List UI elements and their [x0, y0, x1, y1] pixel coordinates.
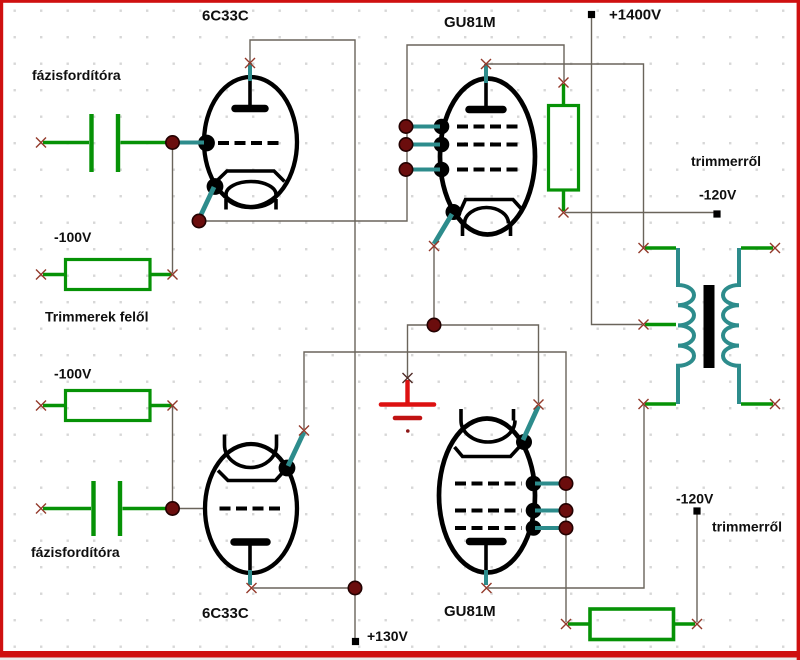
node: V4 grid 1: [559, 477, 572, 490]
anode bottom lead (teal): [484, 570, 488, 585]
terminal x: R3 top: [559, 78, 569, 88]
svg-text:6C33C: 6C33C: [202, 8, 249, 25]
terminal x: T1 primary top: [639, 243, 649, 253]
anode lead: [484, 80, 488, 107]
wire: V3 anode to node at x=355: [253, 587, 355, 589]
grid pin dots: [526, 476, 542, 492]
svg-text:trimmerről: trimmerről: [691, 153, 761, 169]
envelope: [440, 79, 535, 235]
wire: node to V4 cathode: [434, 325, 539, 403]
node: V1 cathode: [192, 214, 205, 227]
terminal x: ground connection: [403, 373, 413, 383]
envelope: [205, 444, 297, 573]
grid dashed x3: [455, 484, 522, 529]
node: V4 grid 2: [559, 504, 572, 517]
primary bottom lead: [645, 402, 676, 405]
terminal x: V3 cathode: [299, 426, 309, 436]
anode lead: [248, 78, 252, 106]
core: [704, 285, 715, 368]
terminal x: R3 bottom: [559, 208, 569, 218]
grid dashed: [218, 141, 284, 145]
heater legs: [463, 224, 511, 237]
heater arc: [225, 445, 277, 468]
anode lead: [484, 545, 488, 572]
terminal x: V2 top cap: [481, 59, 491, 69]
wire: V2 cathode down to node: [433, 247, 435, 325]
wire: V4 anode to transformer primary bottom: [488, 405, 644, 588]
terminal x: T1 secondary bottom: [770, 399, 780, 409]
cathode pin dot: [446, 204, 462, 220]
terminal x: V4 anode: [482, 583, 492, 593]
wire: V3 cathode to V4 grids and R4 left: [304, 352, 566, 622]
terminal x: T1 centre tap: [639, 320, 649, 330]
svg-text:+130V: +130V: [367, 628, 409, 644]
cathode plate: [213, 171, 285, 185]
wire: C2 junction to V3 grid: [173, 508, 207, 510]
node: V2 grid 2: [399, 138, 412, 151]
cathode pin dot: [279, 460, 296, 477]
svg-text:GU81M: GU81M: [444, 603, 496, 620]
node: V2 grid 1: [399, 120, 412, 133]
grid lead (teal): [179, 141, 204, 145]
svg-text:fázisfordítóra: fázisfordítóra: [31, 544, 120, 560]
anode top-cap lead (teal): [248, 63, 252, 81]
anode bar: [469, 106, 503, 114]
cathode plate: [455, 445, 522, 457]
secondary winding (teal): [723, 248, 739, 404]
svg-text:6C33C: 6C33C: [202, 605, 249, 622]
terminal -120V (lower): [693, 507, 700, 514]
terminal x: C1 input: [36, 138, 46, 148]
svg-text:Trimmerek felől: Trimmerek felől: [45, 309, 149, 325]
svg-text:-100V: -100V: [54, 229, 92, 245]
heater arc: [465, 208, 509, 224]
node: V2 grid 3: [399, 163, 412, 176]
terminal +130V: [352, 638, 359, 645]
heater arc: [461, 421, 515, 443]
wire: R3 bottom to -120V terminal: [565, 212, 714, 214]
wire: C1/R1 junction vertical: [172, 143, 174, 274]
heater legs: [225, 435, 277, 446]
wire: V1 cathode to V2 grids and R3 top: [199, 45, 564, 221]
terminal x: V1 top cap: [245, 58, 255, 68]
terminal x: R2 left: [36, 401, 46, 411]
svg-text:-100V: -100V: [54, 366, 92, 382]
terminal x: V2 cathode: [429, 241, 439, 251]
terminal x: R4 right: [692, 619, 702, 629]
anode top-cap lead (teal): [484, 64, 488, 83]
terminal x: T1 primary bottom: [639, 399, 649, 409]
svg-text:trimmerről: trimmerről: [712, 519, 782, 535]
grid dashed x3: [457, 127, 519, 170]
node: +130V rail: [348, 581, 361, 594]
anode lead: [248, 545, 252, 572]
secondary bottom lead: [741, 402, 773, 405]
terminal -120V (upper): [713, 210, 720, 217]
wire: V1 anode top-cap to +130V rail (x=355): [250, 40, 355, 638]
primary centre tap lead: [645, 323, 676, 326]
anode bar: [235, 105, 265, 113]
svg-text:-120V: -120V: [699, 187, 737, 203]
node: C2/R2/grid V3: [166, 502, 179, 515]
svg-text:+1400V: +1400V: [609, 7, 661, 24]
envelope: [204, 77, 297, 207]
terminal x: V3 anode: [247, 583, 257, 593]
cathode pin dot: [207, 178, 224, 195]
primary winding (teal): [678, 248, 694, 404]
terminal x: R2 right: [168, 401, 178, 411]
terminal +1400V: [588, 11, 595, 18]
heater legs: [461, 409, 514, 421]
grid pin dot: [198, 135, 215, 152]
terminal x: R1 right: [168, 270, 178, 280]
cathode lead (teal): [523, 406, 539, 440]
grid pin dots: [434, 119, 450, 135]
wire: R4 right to -120V terminal: [696, 514, 698, 622]
cathode plate: [218, 470, 286, 481]
svg-text:-120V: -120V: [676, 491, 714, 507]
terminal x: R1 left: [36, 270, 46, 280]
cathode plate: [457, 200, 522, 220]
secondary top lead: [741, 246, 773, 249]
cathode lead (teal): [288, 432, 304, 466]
grid leads (teal): [406, 127, 440, 170]
node: V4 grid 3: [559, 521, 572, 534]
envelope: [439, 419, 535, 573]
anode bar: [470, 538, 504, 546]
page border: [0, 0, 800, 3]
grid dashed: [220, 507, 283, 511]
node: cathode common: [427, 318, 440, 331]
svg-text:fázisfordítóra: fázisfordítóra: [32, 67, 121, 83]
wire: node to ground: [408, 325, 435, 377]
anode bar: [234, 538, 267, 546]
cathode lead (teal): [199, 187, 214, 219]
terminal x: T1 secondary top: [770, 243, 780, 253]
wire: R2 to C2 junction vertical: [172, 406, 174, 509]
node: C1/R1/grid V1: [166, 136, 179, 149]
cathode pin dot: [516, 434, 532, 450]
anode bottom lead (teal): [248, 570, 252, 585]
terminal x: C2 input: [36, 504, 46, 514]
wire: V2 anode top-cap to transformer primary top: [487, 64, 644, 247]
heater legs: [226, 199, 276, 210]
grid leads (teal): [535, 484, 565, 529]
terminal x: V4 cathode: [534, 400, 544, 410]
primary top lead: [645, 246, 676, 249]
cathode lead (teal): [434, 214, 452, 244]
wire: +1400V feed to transformer centre tap: [592, 18, 643, 325]
heater: [226, 182, 276, 208]
terminal x: R4 left: [561, 619, 571, 629]
svg-text:GU81M: GU81M: [444, 14, 496, 31]
